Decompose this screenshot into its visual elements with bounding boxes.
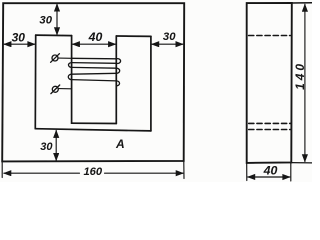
svg-text:160: 160 xyxy=(83,166,102,178)
hidden edge dashed line (window top) xyxy=(249,35,291,37)
side view top extension line to 140 dimension xyxy=(292,2,312,4)
side view outline xyxy=(247,3,292,163)
diameter symbol 1 xyxy=(51,54,60,63)
dimension 160 line right part xyxy=(105,172,184,174)
center limb right edge xyxy=(115,36,117,124)
extension line bottom left xyxy=(1,163,3,178)
svg-text:30: 30 xyxy=(40,141,53,153)
dimension 30 bottom vertical line xyxy=(55,131,57,161)
window top edge left segment xyxy=(36,34,72,37)
center limb bottom edge (air gap) xyxy=(72,122,117,124)
leader line 1 xyxy=(58,57,71,59)
svg-text:30: 30 xyxy=(39,14,52,26)
coil winding around limb xyxy=(68,58,120,86)
dimension 30 left horizontal line xyxy=(4,43,35,45)
center limb left edge xyxy=(71,36,73,124)
svg-text:A: A xyxy=(115,137,125,151)
dimension 140 vertical line xyxy=(304,4,306,161)
hidden edge dashed line (limb bottom) xyxy=(249,122,291,124)
svg-text:140: 140 xyxy=(293,61,307,90)
hidden edge dashed line (window bottom) xyxy=(249,129,291,131)
svg-text:30: 30 xyxy=(163,31,176,43)
leader line 2 xyxy=(59,88,72,90)
dimension 40 horizontal line xyxy=(73,43,116,45)
extension line bottom right xyxy=(183,162,185,179)
svg-text:40: 40 xyxy=(263,164,278,178)
window bottom edge xyxy=(35,129,151,131)
dimension 40 side line xyxy=(248,176,290,178)
window left edge xyxy=(34,35,36,129)
window right edge xyxy=(150,36,152,130)
dimension 30 top vertical line xyxy=(56,4,58,35)
diameter symbol 2 xyxy=(51,85,60,94)
extension line side bottom left xyxy=(246,164,248,181)
dimension 160 line left part xyxy=(4,172,80,174)
window top edge right segment xyxy=(116,35,151,37)
svg-text:40: 40 xyxy=(88,30,103,44)
front view outer rectangle xyxy=(2,3,184,161)
svg-text:30: 30 xyxy=(12,31,26,45)
extension line side bottom right xyxy=(290,164,292,181)
side view bottom extension line to 140 dimension xyxy=(291,162,312,164)
dimension 30 right horizontal line xyxy=(152,43,183,45)
